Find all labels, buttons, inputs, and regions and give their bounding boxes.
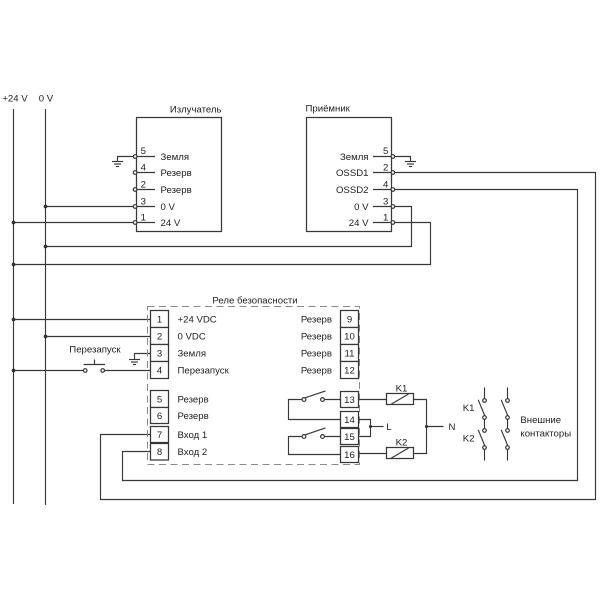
receiver pin 3 bbox=[354, 196, 395, 213]
svg-text:0 V: 0 V bbox=[354, 202, 369, 213]
svg-text:2: 2 bbox=[383, 162, 388, 173]
svg-text:Резерв: Резерв bbox=[301, 314, 332, 325]
svg-text:Резерв: Резерв bbox=[178, 411, 209, 422]
svg-text:14: 14 bbox=[344, 415, 355, 426]
svg-text:9: 9 bbox=[347, 314, 352, 325]
svg-text:1: 1 bbox=[383, 212, 388, 223]
node receiver 0V on rail bbox=[44, 245, 48, 249]
node relay 0VDC on rail bbox=[44, 335, 48, 339]
svg-text:2: 2 bbox=[141, 179, 146, 190]
relay pin box 14 bbox=[341, 412, 359, 428]
svg-text:Резерв: Резерв bbox=[161, 185, 192, 196]
svg-text:4: 4 bbox=[157, 365, 163, 376]
+24V rail bbox=[13, 109, 15, 504]
svg-text:10: 10 bbox=[344, 331, 355, 342]
relay pin box 4 bbox=[151, 362, 230, 379]
relay coil K1 bbox=[387, 394, 414, 405]
svg-text:Вход 1: Вход 1 bbox=[178, 430, 208, 441]
svg-text:0 VDC: 0 VDC bbox=[178, 331, 206, 342]
wire restart button to relay pin4 bbox=[104, 370, 150, 372]
wire K1 to K2 (N branch) bbox=[414, 400, 427, 454]
svg-text:Земля: Земля bbox=[340, 152, 369, 163]
safety relay U3 dashed box bbox=[148, 307, 360, 465]
wire L bracket pins 14-15 bbox=[359, 420, 371, 437]
svg-text:K1: K1 bbox=[396, 383, 408, 394]
svg-text:L: L bbox=[386, 422, 392, 433]
svg-text:Резерв: Резерв bbox=[301, 331, 332, 342]
relay pin box 6 bbox=[151, 408, 209, 424]
wire L tap bbox=[371, 426, 384, 428]
svg-text:Земля: Земля bbox=[178, 348, 207, 359]
relay pin box 10 bbox=[301, 328, 359, 345]
ground (relay pin3) bbox=[129, 360, 140, 365]
svg-text:контакторы: контакторы bbox=[520, 429, 571, 440]
svg-text:0 V: 0 V bbox=[161, 202, 176, 213]
pushbutton SB1 (Перезапуск) bbox=[83, 360, 105, 373]
svg-text:Излучатель: Излучатель bbox=[170, 105, 222, 116]
svg-text:8: 8 bbox=[157, 447, 162, 458]
svg-text:+24 VDC: +24 VDC bbox=[178, 314, 217, 325]
svg-text:N: N bbox=[449, 422, 456, 433]
svg-text:15: 15 bbox=[344, 432, 355, 443]
svg-text:Перезапуск: Перезапуск bbox=[69, 345, 121, 356]
relay pin box 3 bbox=[151, 345, 207, 362]
ground (receiver) bbox=[405, 162, 416, 167]
0V rail bbox=[45, 109, 47, 505]
external contactor K1 contact (column 2 upper) bbox=[501, 388, 509, 420]
svg-text:11: 11 bbox=[345, 348, 355, 359]
external contactor K1 contact (column 1 upper) bbox=[478, 388, 486, 420]
wire emitter pin1 24V to +24V rail bbox=[14, 222, 137, 224]
emitter pin 2 bbox=[133, 179, 191, 196]
external contactor K2 contact (column 1 lower) bbox=[478, 419, 486, 460]
node receiver 24V on rail bbox=[12, 263, 16, 267]
svg-text:5: 5 bbox=[157, 394, 162, 405]
svg-text:Приёмник: Приёмник bbox=[306, 104, 351, 115]
svg-text:Резерв: Резерв bbox=[161, 168, 192, 179]
svg-text:+24 V: +24 V bbox=[2, 94, 28, 105]
relay coil K2 bbox=[387, 448, 414, 459]
svg-text:3: 3 bbox=[383, 196, 388, 207]
svg-text:5: 5 bbox=[383, 146, 388, 157]
svg-text:24 V: 24 V bbox=[161, 218, 181, 229]
wire relay pin2 to 0V rail bbox=[46, 336, 151, 338]
svg-text:3: 3 bbox=[157, 348, 162, 359]
wire emitter pin5 to ground bbox=[118, 157, 134, 162]
wire relay pin3 to ground bbox=[135, 354, 151, 360]
relay pin box 12 bbox=[301, 362, 359, 379]
svg-text:5: 5 bbox=[141, 146, 146, 157]
wire emitter pin3 0V to 0V rail bbox=[46, 206, 137, 208]
relay pin box 8 bbox=[151, 444, 208, 461]
wire relay pin16 to K2 bbox=[359, 453, 387, 455]
wire OSSD1: receiver pin2 right, down, bottom left, up to relay pin7 bbox=[101, 173, 596, 500]
svg-text:Резерв: Резерв bbox=[301, 365, 332, 376]
emitter U1 box bbox=[137, 118, 222, 232]
svg-text:0 V: 0 V bbox=[39, 94, 54, 105]
svg-text:4: 4 bbox=[383, 179, 389, 190]
svg-text:Резерв: Резерв bbox=[178, 394, 209, 405]
svg-text:16: 16 bbox=[344, 450, 355, 461]
svg-text:Земля: Земля bbox=[161, 152, 190, 163]
wire N tap bbox=[427, 426, 444, 428]
receiver U2 box bbox=[307, 118, 392, 232]
svg-text:K2: K2 bbox=[463, 434, 475, 445]
wire OSSD2: receiver pin4 right, down, bottom left, up to relay pin8 bbox=[123, 190, 578, 481]
relay pin box 7 bbox=[151, 427, 208, 443]
relay pin box 9 bbox=[301, 311, 359, 328]
svg-text:13: 13 bbox=[344, 395, 355, 406]
node relay +24VDC on rail bbox=[12, 318, 16, 322]
relay pin box 2 bbox=[151, 328, 206, 345]
node L bbox=[369, 425, 372, 428]
receiver pin 4 bbox=[336, 179, 395, 196]
svg-text:1: 1 bbox=[157, 314, 162, 325]
svg-text:12: 12 bbox=[344, 365, 355, 376]
receiver pin 2 bbox=[336, 162, 395, 179]
wire relay pin13 to K1 bbox=[359, 399, 387, 401]
receiver pin 1 bbox=[349, 212, 395, 229]
svg-text:Резерв: Резерв bbox=[301, 348, 332, 359]
emitter pin 5 bbox=[133, 146, 189, 163]
wire rail to restart button bbox=[14, 370, 84, 372]
svg-text:OSSD1: OSSD1 bbox=[336, 168, 369, 179]
relay pin box 11 bbox=[301, 345, 359, 362]
receiver pin 5 bbox=[340, 146, 395, 163]
relay pin box 5 bbox=[151, 391, 209, 408]
emitter pin 1 bbox=[133, 212, 181, 229]
svg-text:4: 4 bbox=[141, 162, 147, 173]
svg-text:Вход 2: Вход 2 bbox=[178, 447, 208, 458]
svg-text:6: 6 bbox=[157, 411, 162, 422]
svg-text:K2: K2 bbox=[396, 437, 408, 448]
node restart on rail bbox=[12, 369, 16, 373]
node emitter 0V on rail bbox=[44, 205, 48, 209]
svg-text:24 V: 24 V bbox=[349, 218, 369, 229]
relay pin box 1 bbox=[151, 311, 217, 328]
svg-text:7: 7 bbox=[157, 430, 162, 441]
svg-text:3: 3 bbox=[141, 196, 146, 207]
emitter pin 3 bbox=[133, 196, 175, 213]
external contactor K2 contact (column 2 lower) bbox=[501, 419, 509, 460]
svg-text:K1: K1 bbox=[463, 403, 475, 414]
ground (emitter) bbox=[112, 162, 123, 167]
relay internal contact B (15-16) bbox=[289, 428, 341, 455]
wire receiver pin5 to ground bbox=[394, 157, 410, 162]
svg-text:Реле безопасности: Реле безопасности bbox=[212, 296, 297, 307]
relay pin box 15 bbox=[341, 429, 359, 445]
svg-text:Перезапуск: Перезапуск bbox=[178, 365, 230, 376]
wire receiver pin1 24V to +24V rail bbox=[14, 223, 431, 265]
node N bbox=[425, 425, 428, 428]
relay pin box 16 bbox=[341, 447, 359, 463]
emitter pin 4 bbox=[133, 162, 191, 179]
wire relay pin1 to +24V rail bbox=[14, 319, 151, 321]
node emitter 24V on rail bbox=[12, 221, 16, 225]
svg-text:OSSD2: OSSD2 bbox=[336, 185, 369, 196]
wire receiver pin3 0V to 0V rail bbox=[46, 207, 412, 247]
relay internal contact A (13-14) bbox=[289, 391, 341, 420]
svg-text:Внешние: Внешние bbox=[520, 415, 561, 426]
svg-text:2: 2 bbox=[157, 331, 162, 342]
relay pin box 13 bbox=[341, 392, 359, 408]
svg-text:1: 1 bbox=[141, 212, 146, 223]
